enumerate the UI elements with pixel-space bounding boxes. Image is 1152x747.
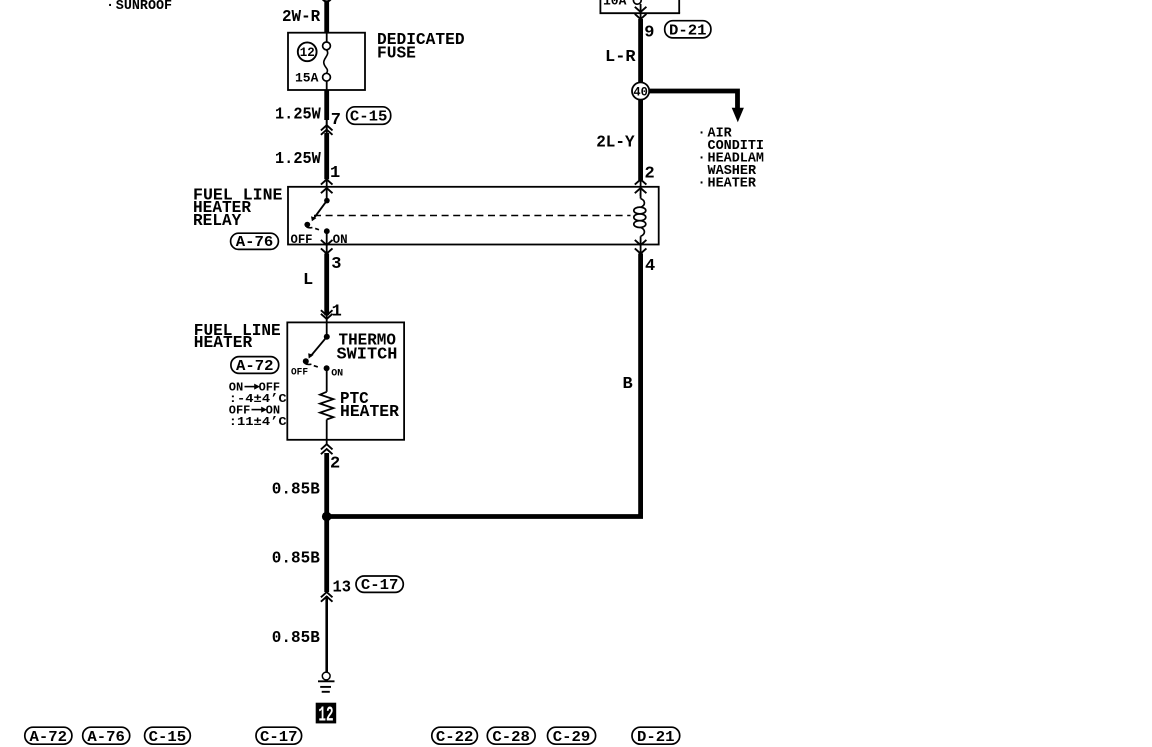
svg-text:A-72: A-72: [236, 358, 274, 375]
svg-text:HEATER: HEATER: [194, 334, 253, 353]
svg-text:1.25W: 1.25W: [275, 150, 322, 169]
relay pin 3 exit arrows: [321, 232, 333, 254]
connector C-22 (bottom row): [432, 727, 478, 746]
svg-text:0.85B: 0.85B: [272, 480, 320, 499]
fuse element terminal circle (cut off): [633, 0, 641, 4]
svg-text:RELAY: RELAY: [193, 212, 242, 231]
wire 1.25W from fuse to connector C-15: [324, 90, 329, 120]
svg-text:1: 1: [332, 303, 342, 322]
relay switch contact (pin 1 side): [304, 198, 329, 234]
svg-text:D-21: D-21: [637, 729, 675, 746]
svg-text:C-17: C-17: [260, 729, 298, 746]
relay pin 1 entry arrows: [321, 179, 333, 200]
svg-text:C-29: C-29: [553, 729, 591, 746]
junction node: heater ground joins relay coil ground: [322, 512, 332, 522]
connector A-76 (bottom row): [83, 727, 130, 746]
wire from thermo switch to PTC heater: [326, 368, 328, 392]
label THERMO SWITCH: [337, 332, 398, 365]
svg-text:SWITCH: SWITCH: [337, 346, 398, 365]
svg-text:40: 40: [633, 85, 648, 100]
svg-text:A-72: A-72: [30, 729, 68, 746]
label FUEL LINE HEATER RELAY: [193, 186, 283, 231]
svg-text:L-R: L-R: [605, 48, 636, 67]
svg-text:7: 7: [331, 111, 341, 130]
connector C-17 label box: [356, 576, 403, 594]
fuel line heater relay box A-76: [288, 187, 659, 245]
svg-text:·: ·: [106, 0, 114, 14]
svg-text::11±4’C: :11±4’C: [229, 415, 287, 429]
svg-text:HEATER: HEATER: [340, 403, 400, 422]
label FUEL LINE HEATER: [194, 322, 281, 353]
wire L from relay pin 3 to fuel line heater pin 1: [324, 254, 329, 316]
connector C-17 chevron marks on wire: [321, 592, 333, 602]
connector C-15 (bottom row): [145, 727, 191, 746]
wire 2W-R: battery feed down to dedicated fuse: [324, 2, 329, 34]
svg-text:2L-Y: 2L-Y: [596, 134, 635, 153]
svg-text:15A: 15A: [295, 70, 319, 85]
wire 1.25W from C-15 to fuel line heater relay pin 1: [324, 133, 329, 179]
svg-text:13: 13: [333, 579, 352, 598]
fuel line heater pin 2 exit arrows: [321, 444, 333, 454]
fuse element F12 15A: [323, 33, 331, 90]
thermo switch: [303, 334, 330, 371]
svg-text:4: 4: [645, 257, 655, 276]
svg-text:C-22: C-22: [436, 729, 474, 746]
connector A-72 (bottom row): [25, 727, 72, 746]
connector C-29 (bottom row): [548, 727, 596, 746]
svg-text:·: ·: [698, 177, 706, 192]
svg-text:D-21: D-21: [669, 23, 707, 40]
svg-text:ON: ON: [333, 233, 348, 247]
svg-text:C-28: C-28: [492, 729, 530, 746]
fuse number circle 12: [298, 42, 317, 61]
wire B from relay pin 4 down: [638, 254, 643, 517]
svg-text:OFF: OFF: [291, 233, 313, 247]
node: top terminal circle on wire 2W-R: [322, 0, 332, 1]
svg-text:0.85B: 0.85B: [272, 629, 320, 648]
connector C-15 label box: [347, 107, 391, 126]
svg-text:3: 3: [331, 255, 341, 274]
wire L-R from fuse to splice 40: [638, 19, 643, 84]
destination list for branch arrow: [698, 127, 765, 192]
svg-text:A-76: A-76: [87, 729, 125, 746]
ground reference 12 (black box): [316, 703, 337, 728]
thermo switch temperature notes: [229, 381, 287, 430]
svg-text:1: 1: [330, 164, 340, 183]
svg-text:10A: 10A: [603, 0, 627, 9]
label DEDICATED FUSE: [377, 31, 465, 64]
svg-text:1.25W: 1.25W: [275, 105, 322, 124]
connector C-28 (bottom row): [487, 727, 535, 746]
arrowhead to other circuits: [732, 108, 744, 122]
ground symbol (body ground 12): [318, 672, 335, 692]
svg-text:B: B: [623, 375, 633, 394]
svg-text:12: 12: [300, 46, 315, 60]
wire 0.85B from C-17 to body ground: [325, 596, 328, 672]
fuse box (10A) at top right, cut off: [600, 0, 681, 13]
resistor PTC heater: [320, 392, 333, 420]
svg-text:·: ·: [698, 127, 706, 142]
svg-text:OFF: OFF: [291, 366, 308, 378]
relay coil (between pins 2 and 4): [634, 193, 646, 245]
relay pin 4 exit arrows: [635, 240, 647, 254]
svg-text:0.85B: 0.85B: [272, 549, 320, 568]
relay pin 2 entry arrows: [635, 179, 647, 196]
connector A-76 label box: [231, 233, 279, 251]
connector D-21 label box (top): [665, 21, 711, 40]
connector D-21 (bottom row): [632, 727, 680, 746]
svg-text:HEATER: HEATER: [708, 177, 757, 192]
connector C-17 (bottom row): [256, 727, 302, 746]
fuse exit arrows to pin 9: [635, 4, 647, 20]
wire 0.85B from heater pin 2 to ground junction: [324, 453, 329, 592]
svg-text:9: 9: [644, 23, 654, 42]
svg-text:2W-R: 2W-R: [282, 8, 321, 27]
svg-text:12: 12: [318, 705, 333, 728]
splice 40: [632, 82, 649, 99]
connector C-15 chevron marks on wire: [321, 125, 333, 135]
svg-text:ON: ON: [331, 367, 343, 379]
fuel line heater box A-72: [287, 322, 404, 439]
note: sunroof branch label (cut off at top): [106, 0, 172, 14]
label PTC HEATER: [340, 390, 400, 422]
svg-text:C-17: C-17: [361, 577, 399, 594]
svg-text:·: ·: [698, 152, 706, 167]
branch wire from splice 40 to other circuits: [647, 91, 738, 110]
svg-text:L: L: [303, 271, 313, 290]
svg-text:C-15: C-15: [350, 109, 388, 126]
wire 2L-Y from splice 40 to relay pin 2: [638, 98, 643, 180]
fuel line heater pin 1 entry arrows: [321, 310, 333, 336]
svg-text:SUNROOF: SUNROOF: [116, 0, 172, 14]
dedicated fuse box: [288, 33, 365, 90]
connector A-72 label box: [231, 357, 279, 375]
wire from PTC heater to pin 2: [326, 420, 328, 445]
svg-text:2: 2: [330, 455, 340, 474]
relay actuation dashed link to coil: [314, 215, 631, 217]
svg-text:A-76: A-76: [236, 234, 274, 251]
svg-text:2: 2: [645, 165, 655, 184]
wire: horizontal ground link from relay coil to junction: [327, 514, 641, 517]
svg-text:FUSE: FUSE: [377, 45, 416, 64]
svg-text:C-15: C-15: [149, 729, 187, 746]
